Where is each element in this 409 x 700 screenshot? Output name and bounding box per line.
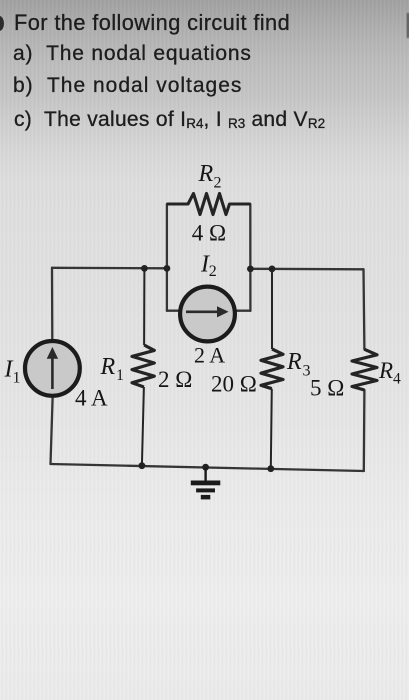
svg-text:R: R [198,161,214,187]
resistor R4 [352,349,377,390]
bullet fragment at left edge [0,16,4,31]
resistor R1 [132,268,154,465]
problem text line a [13,43,252,64]
svg-text:20 Ω: 20 Ω [211,372,257,397]
current source I1 [25,341,80,396]
ground [191,467,221,499]
junction dot ground tap [202,464,209,471]
junction dot top rail left branch [164,265,171,272]
label 2 ohm (R1 value) [158,367,192,392]
svg-text:4 A: 4 A [75,386,108,411]
svg-text:4 Ω: 4 Ω [192,221,226,246]
problem text line 1 [14,12,290,34]
wire I2 right stub [234,310,250,312]
current source I2 [180,287,235,342]
label R3 [286,349,311,380]
junction dot bottom of R1 [139,462,146,469]
svg-text:R: R [100,354,116,380]
label 20 ohm [211,372,257,397]
wire top rail left segment [52,267,167,270]
wire R2 branch left vertical [166,204,168,311]
label 5 ohm (R3 value) [310,376,344,401]
svg-text:1: 1 [116,367,124,384]
svg-text:1: 1 [13,370,21,387]
wire R4 top lead [362,269,365,349]
screen edge artifact right [407,13,409,38]
label R4 [378,358,401,388]
junction dot bottom of R3 [267,465,274,472]
wire R2 branch right vertical [249,204,251,311]
svg-text:2: 2 [214,175,222,192]
svg-text:5 Ω: 5 Ω [310,376,344,401]
junction dot top rail right branch [247,266,254,273]
svg-text:4: 4 [393,371,401,388]
wire top rail right segment [250,268,363,271]
resistor R3 [261,269,283,469]
junction dot top of R1 [141,265,148,272]
problem text line b [13,75,242,96]
wire R4 bottom lead [363,390,366,471]
svg-text:2: 2 [209,263,217,280]
wire I2 left stub [167,310,181,312]
svg-text:2 Ω: 2 Ω [158,367,192,392]
wire left edge lower [51,398,53,464]
wire bottom rail [51,464,364,471]
label 2 A (I2 value) [194,343,225,368]
problem text line c [14,109,325,134]
junction dot top of R3 [269,266,276,273]
svg-text:R: R [286,349,302,375]
label R1 [100,354,125,384]
label I2 [200,252,217,281]
svg-text:R: R [378,358,393,383]
resistor R2 [167,194,250,215]
wire left edge upper [51,268,54,339]
label 4 ohm (R2 value) [192,221,226,246]
label 4 A (I1 value) [75,386,108,411]
label I1 [4,356,21,386]
svg-text:2 A: 2 A [194,343,225,368]
label R2 [198,161,222,192]
